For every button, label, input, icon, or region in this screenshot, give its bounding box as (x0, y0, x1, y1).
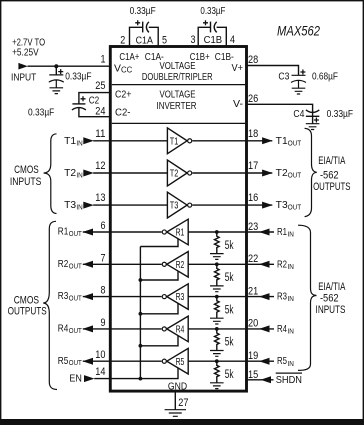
bottom black bar (0, 419, 364, 425)
svg-text:C1A: C1A (136, 35, 153, 46)
wire R5 input from pin 19 (188, 350, 294, 368)
receiver R2 (162, 252, 188, 278)
svg-text:R4: R4 (58, 324, 69, 335)
svg-text:V-: V- (233, 99, 243, 110)
svg-text:0.33µF: 0.33µF (327, 109, 354, 120)
svg-text:9: 9 (101, 317, 106, 329)
svg-text:6: 6 (101, 220, 106, 232)
svg-text:MAX562: MAX562 (277, 23, 320, 39)
svg-text:0.33µF: 0.33µF (200, 6, 225, 17)
svg-text:T3: T3 (276, 200, 288, 211)
svg-text:-562: -562 (320, 170, 339, 182)
resistor 5k (R3 input termination) (210, 297, 234, 324)
svg-text:V+: V+ (232, 63, 244, 74)
svg-text:IN: IN (76, 171, 82, 180)
resistor 5k (R4 input termination) (210, 329, 234, 356)
divider doubler/inverter (112, 84, 245, 86)
receiver R4 (162, 316, 188, 342)
svg-text:R2: R2 (277, 259, 287, 270)
svg-text:R5: R5 (176, 357, 185, 368)
node resistor junction R5 (215, 359, 219, 363)
wire R3 output inside (110, 296, 161, 298)
svg-text:-562: -562 (320, 292, 339, 304)
svg-text:5k: 5k (225, 337, 234, 349)
svg-text:DOUBLER/TRIPLER: DOUBLER/TRIPLER (142, 72, 213, 83)
svg-text:OUT: OUT (288, 138, 302, 147)
resistor 5k (R5 input termination) (210, 361, 234, 388)
svg-text:18: 18 (248, 128, 258, 140)
receiver R1 output R1OUT pin 6 (58, 220, 111, 238)
svg-text:26: 26 (248, 93, 258, 105)
node resistor junction R3 (215, 295, 219, 299)
divider inverter/buffers (112, 122, 245, 124)
wire R1 output inside (110, 231, 161, 233)
svg-text:IN: IN (288, 359, 294, 368)
svg-text:24: 24 (95, 106, 105, 118)
svg-text:R5: R5 (277, 356, 287, 367)
node R4 enable junction (139, 344, 143, 348)
svg-text:R4: R4 (176, 325, 185, 336)
wire R1 input from pin 23 (188, 221, 294, 239)
capacitor C2 0.33uF (28, 93, 110, 119)
svg-text:R4: R4 (277, 324, 287, 335)
wire R5 output inside (110, 360, 161, 362)
svg-text:2: 2 (120, 34, 125, 46)
svg-text:INVERTER: INVERTER (157, 101, 197, 112)
svg-text:5k: 5k (225, 240, 234, 252)
transmitter T3 input T3IN pin 13 (64, 192, 167, 212)
wire R2 enable (140, 271, 178, 280)
svg-text:IN: IN (288, 327, 294, 336)
svg-text:3: 3 (191, 34, 196, 46)
capacitor C1B 0.33uF (191, 6, 236, 47)
svg-text:T1: T1 (276, 136, 288, 147)
svg-text:R5: R5 (58, 356, 69, 367)
svg-text:C1A+: C1A+ (119, 52, 139, 63)
svg-text:27: 27 (178, 397, 188, 409)
wire R4 enable (140, 336, 178, 346)
node EN junction (139, 377, 143, 381)
SHDN input pin 15 (247, 369, 303, 386)
svg-text:CMOS: CMOS (14, 164, 39, 176)
ground (pin 27) (165, 410, 186, 417)
svg-text:T2: T2 (64, 168, 76, 179)
svg-text:IN: IN (76, 203, 82, 212)
capacitor 0.33uF bypass (49, 66, 92, 93)
svg-text:EIA/TIA: EIA/TIA (318, 155, 346, 167)
svg-text:OUT: OUT (69, 358, 82, 367)
receiver R5 (162, 348, 188, 374)
input arrow (18, 63, 27, 70)
enable bus vertical (139, 247, 141, 379)
receiver R1 (162, 219, 188, 245)
svg-text:OUT: OUT (288, 203, 302, 212)
svg-text:EIA/TIA: EIA/TIA (318, 281, 346, 293)
wire R5 enable / EN (94, 368, 178, 379)
svg-text:R3: R3 (58, 291, 69, 302)
svg-text:OUT: OUT (288, 171, 302, 180)
svg-text:19: 19 (248, 350, 258, 362)
wire R3 input from pin 21 (188, 285, 294, 303)
svg-text:T3: T3 (170, 201, 179, 212)
svg-text:T2: T2 (276, 168, 288, 179)
svg-text:VCC: VCC (114, 63, 133, 74)
svg-text:8: 8 (101, 285, 106, 297)
svg-text:21: 21 (248, 285, 258, 297)
svg-text:SHDN: SHDN (276, 375, 302, 386)
GND pin 27 (168, 381, 189, 409)
wire R2 input from pin 22 (188, 253, 294, 271)
receiver R3 (162, 284, 188, 310)
svg-text:T3: T3 (64, 200, 76, 211)
svg-text:C2-: C2- (115, 108, 131, 119)
svg-text:14: 14 (95, 366, 105, 378)
svg-text:4: 4 (230, 34, 235, 46)
svg-text:IN: IN (288, 294, 294, 303)
svg-text:22: 22 (248, 253, 258, 265)
wire R4 output inside (110, 328, 161, 330)
capacitor C4 0.33uF (293, 109, 353, 130)
svg-text:OUT: OUT (69, 261, 82, 270)
svg-text:INPUTS: INPUTS (316, 304, 346, 316)
node resistor junction R1 (215, 230, 219, 234)
svg-text:28: 28 (248, 54, 258, 66)
svg-text:GND: GND (168, 381, 187, 392)
svg-text:R1: R1 (58, 227, 69, 238)
receiver R2 output R2OUT pin 7 (58, 252, 111, 270)
svg-text:5: 5 (162, 34, 167, 46)
svg-text:R1: R1 (176, 228, 185, 239)
svg-text:C2+: C2+ (115, 90, 131, 101)
svg-text:0.68µF: 0.68µF (312, 71, 338, 82)
node resistor junction R4 (215, 327, 219, 331)
svg-text:C1B-: C1B- (215, 52, 234, 63)
svg-text:5k: 5k (225, 272, 234, 284)
node: bypass junction (54, 64, 58, 68)
svg-text:IN: IN (288, 262, 294, 271)
transmitter T2 input T2IN pin 12 (64, 160, 167, 180)
EN input pin 14 (69, 366, 105, 385)
svg-text:R2: R2 (176, 260, 185, 271)
svg-text:IN: IN (288, 230, 294, 239)
svg-text:R3: R3 (176, 292, 185, 303)
svg-text:VOLTAGE: VOLTAGE (160, 61, 196, 72)
wire pin 26 V- (247, 104, 313, 116)
svg-text:0.33µF: 0.33µF (28, 108, 54, 119)
wire T1 output to pin 18 (192, 128, 301, 148)
svg-text:+5.25V: +5.25V (12, 47, 39, 58)
transmitter T1 input T1IN pin 11 (64, 128, 167, 148)
wire R4 input from pin 20 (188, 318, 294, 336)
node resistor junction R2 (215, 262, 219, 266)
svg-text:C1B: C1B (204, 35, 223, 46)
svg-text:12: 12 (95, 160, 105, 172)
svg-text:C3: C3 (278, 72, 289, 83)
svg-text:R2: R2 (58, 259, 69, 270)
IC body MAX562 (110, 47, 246, 392)
capacitor C1A 0.33uF (120, 6, 167, 47)
wire R2 output inside (110, 263, 161, 265)
brace EIA/TIA outputs (305, 128, 317, 216)
svg-text:10: 10 (95, 349, 105, 361)
svg-text:IN: IN (76, 138, 82, 147)
svg-text:INPUTS: INPUTS (10, 176, 42, 188)
svg-text:T2: T2 (170, 169, 179, 180)
svg-text:R1: R1 (277, 227, 287, 238)
svg-text:0.33µF: 0.33µF (65, 72, 91, 83)
brace CMOS outputs (43, 221, 57, 389)
svg-text:OUT: OUT (69, 229, 82, 238)
svg-text:OUTPUTS: OUTPUTS (8, 306, 47, 318)
svg-text:25: 25 (95, 80, 105, 92)
brace CMOS inputs (44, 134, 57, 214)
receiver R5 output R5OUT pin 10 (58, 349, 111, 367)
svg-text:15: 15 (248, 369, 258, 381)
svg-text:20: 20 (248, 318, 258, 330)
svg-text:OUT: OUT (69, 294, 82, 303)
wire pin 28 V+ (247, 66, 299, 76)
resistor 5k (R2 input termination) (210, 264, 234, 291)
svg-text:13: 13 (95, 192, 105, 204)
receiver R4 output R4OUT pin 9 (58, 317, 111, 335)
svg-text:7: 7 (101, 252, 106, 264)
wire T2 output to pin 17 (192, 160, 301, 180)
svg-text:5k: 5k (225, 304, 234, 316)
svg-text:EN: EN (69, 373, 82, 384)
wire R1 enable (140, 239, 178, 247)
svg-text:5k: 5k (225, 369, 234, 381)
wire input to pin 1 (28, 65, 111, 67)
svg-text:OUTPUTS: OUTPUTS (313, 181, 350, 193)
svg-text:T1: T1 (64, 136, 76, 147)
inverter T2 (167, 160, 191, 186)
node R3 enable junction (139, 312, 143, 316)
svg-text:C4: C4 (293, 109, 304, 120)
svg-text:INPUT: INPUT (11, 73, 36, 84)
svg-text:R3: R3 (277, 292, 287, 303)
brace EIA/TIA inputs (298, 225, 317, 370)
svg-text:OUT: OUT (69, 326, 82, 335)
inverter T1 (167, 128, 191, 154)
receiver R3 output R3OUT pin 8 (58, 285, 111, 303)
wire R3 enable (140, 303, 178, 314)
svg-text:17: 17 (248, 160, 258, 172)
svg-text:VOLTAGE: VOLTAGE (160, 90, 196, 101)
resistor 5k (R1 input termination) (210, 232, 234, 259)
svg-text:16: 16 (248, 192, 258, 204)
svg-text:23: 23 (248, 221, 258, 233)
svg-text:11: 11 (95, 128, 105, 140)
svg-text:T1: T1 (170, 136, 179, 147)
capacitor C3 0.68uF (278, 70, 338, 95)
node R2 enable junction (139, 278, 143, 282)
svg-text:1: 1 (101, 54, 106, 66)
wire T3 output to pin 16 (192, 192, 301, 212)
svg-text:0.33µF: 0.33µF (130, 6, 156, 17)
inverter T3 (167, 192, 191, 218)
